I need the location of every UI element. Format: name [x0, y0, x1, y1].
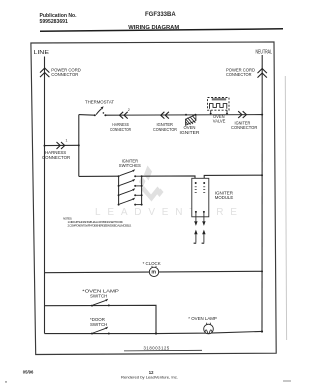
svg-text:CONNECTOR: CONNECTOR [51, 72, 78, 77]
junction dot lamp/neutral corner [261, 330, 263, 332]
igniter switches [119, 159, 141, 169]
junction dot clock-row/neutral [261, 270, 263, 272]
wire: switch left bus [118, 176, 120, 204]
svg-text:THERMOSTAT: THERMOSTAT [85, 99, 114, 104]
svg-text:CONNECTOR: CONNECTOR [153, 127, 177, 132]
oven igniter [185, 114, 196, 126]
svg-text:5995283691: 5995283691 [40, 19, 68, 25]
svg-text:CONNECTOR: CONNECTOR [110, 127, 131, 132]
svg-text:1: 1 [66, 139, 68, 143]
svg-text:* OVEN LAMP: * OVEN LAMP [188, 316, 217, 321]
header rule [40, 29, 283, 32]
clock [149, 266, 158, 277]
svg-text:SWITCHES: SWITCHES [119, 163, 141, 168]
junction dot module/neutral [261, 174, 263, 176]
svg-text:* CLOCK: * CLOCK [143, 261, 161, 266]
svg-text:VALVE: VALVE [213, 118, 226, 123]
junction dot branch/harness1 [78, 144, 80, 146]
wire: harness connector 1 row [45, 144, 79, 146]
page edge artifact line (right) [285, 76, 286, 340]
wire: door switch / oven lamp row [45, 331, 263, 333]
wire: switch right bus [141, 176, 143, 204]
junction dot harness1/line [44, 145, 46, 147]
power cord connector (left) [40, 68, 49, 77]
svg-text:LINE: LINE [34, 50, 50, 56]
svg-text:NEUTRAL: NEUTRAL [256, 50, 273, 56]
wire: branch vertical thermostat/switches [78, 115, 80, 177]
svg-text:IGNITER: IGNITER [180, 130, 200, 135]
notes [63, 217, 132, 228]
svg-text:CONNECTOR: CONNECTOR [226, 72, 252, 77]
wire: oven lamp switch row [45, 305, 157, 333]
wire: NEUTRAL vertical bus [261, 55, 263, 332]
wire: switches bus left [79, 175, 119, 177]
junction dot thermostat-row/neutral [261, 114, 263, 116]
wire: igniter module to neutral [204, 175, 262, 183]
switch SW1 [118, 169, 143, 177]
svg-text:Rendered by LeadVenture, Inc.: Rendered by LeadVenture, Inc. [121, 375, 178, 380]
oven valve [208, 98, 230, 115]
harness connector 2 [120, 112, 128, 119]
wire: switches to igniter module [142, 176, 195, 183]
door switch [91, 327, 157, 335]
igniter connector (right) [238, 111, 246, 118]
igniter module [192, 178, 209, 243]
switch SW2 [118, 179, 143, 187]
switch SW4 [118, 198, 143, 206]
wire: LINE vertical bus [44, 57, 46, 334]
igniter connector (left) [161, 112, 169, 119]
svg-text:MODULE: MODULE [215, 195, 233, 200]
watermark logo [139, 166, 164, 202]
svg-text:318003125: 318003125 [144, 346, 170, 351]
wire: thermostat row to neutral [106, 114, 263, 117]
page bottom artifacts [283, 380, 291, 382]
svg-text:FGF333BA: FGF333BA [145, 12, 176, 18]
svg-text:LEADVENTURE: LEADVENTURE [95, 207, 244, 218]
switch SW3 [118, 188, 143, 196]
spark electrode wires [196, 212, 204, 243]
wire: thermostat stub [79, 114, 95, 117]
svg-text:CONNECTOR: CONNECTOR [42, 155, 70, 160]
svg-text:2. COMPONENTS WITH * DE-ENERGI: 2. COMPONENTS WITH * DE-ENERGIZE IN 30 S… [68, 223, 132, 227]
wire: clock row [45, 271, 263, 272]
svg-text:SWITCH: SWITCH [90, 293, 107, 298]
svg-text:05/96: 05/96 [23, 370, 34, 375]
power cord connector (right) [258, 69, 267, 78]
header: publication number [40, 13, 78, 25]
drawing number underline [124, 349, 202, 352]
svg-text:2: 2 [128, 108, 130, 112]
oven lamp [204, 323, 214, 334]
border frame of diagram [31, 42, 276, 355]
thermostat [94, 106, 107, 116]
svg-text:m: m [151, 269, 156, 275]
harness connector 1 [57, 142, 65, 149]
svg-text:CONNECTOR: CONNECTOR [231, 125, 257, 130]
oven lamp switch [91, 299, 110, 307]
svg-text:Publication No.: Publication No. [40, 13, 78, 19]
svg-text:SWITCH: SWITCH [90, 322, 107, 327]
